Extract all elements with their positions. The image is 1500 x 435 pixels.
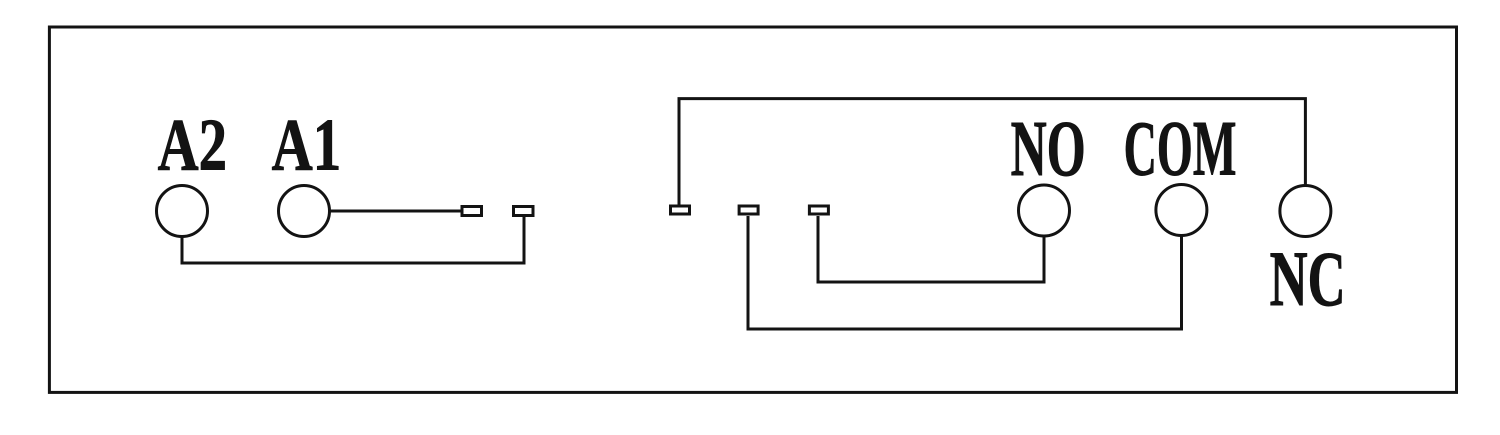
wire contact pad NO to terminal NO [818,216,1044,282]
wire A2 to coil pad right [182,217,524,263]
terminal COM [1156,185,1207,236]
svg-text:COM: COM [1124,105,1237,192]
svg-text:A1: A1 [272,105,342,187]
wire A1 to coil pad left [330,210,461,213]
terminal NC [1280,186,1331,237]
svg-text:NO: NO [1011,106,1086,193]
svg-text:NC: NC [1270,235,1346,322]
coil pad left [462,207,482,216]
wire contact pad COM to terminal COM [748,216,1182,329]
contact pad NC [671,206,690,214]
terminal A2 [157,186,208,237]
contact pad NO [809,206,828,214]
svg-text:A2: A2 [158,105,227,187]
wire contact pad NC to terminal NC [679,99,1305,205]
terminal A1 [279,186,330,237]
coil pad right [514,207,534,216]
terminal NO [1019,185,1070,236]
contact pad COM [739,206,758,214]
